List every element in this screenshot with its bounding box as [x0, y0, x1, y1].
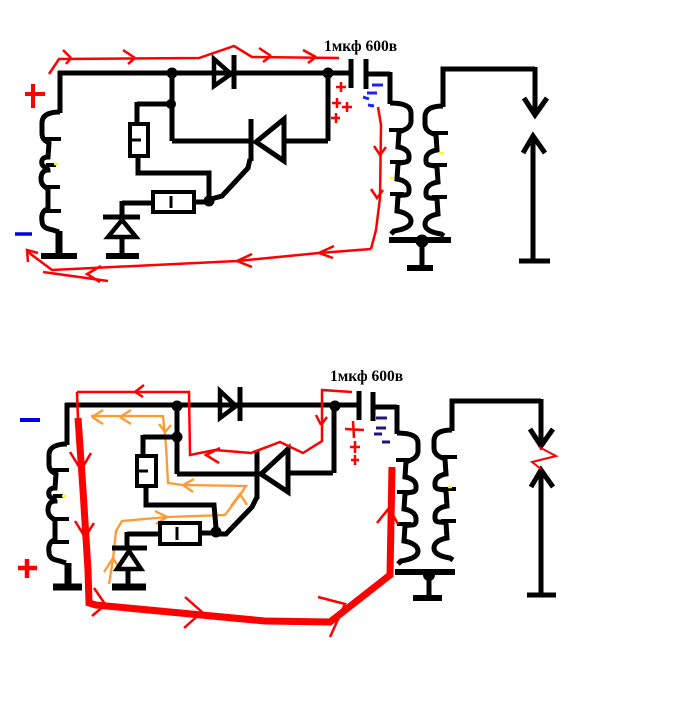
inductor L1 stub ticks B	[51, 470, 69, 542]
wire vertical x=333 B	[332, 406, 337, 473]
resistor R2 body B	[160, 523, 200, 544]
spark gap upper electrode shaft B	[539, 399, 544, 443]
resistor R1 mark B	[139, 470, 148, 473]
junction dot B T	[323, 68, 334, 79]
orange arrowhead left (mid) B	[183, 479, 194, 492]
red charge path right vertical T	[371, 107, 381, 249]
zener D3 cathode bar B	[112, 546, 147, 551]
diode D1 triangle B	[220, 391, 236, 418]
orange arrowhead up (zener) B	[104, 558, 121, 572]
red plus marks near capacitor T	[331, 82, 352, 123]
wire junction to R1 top T	[137, 102, 172, 124]
transformer primary winding T	[390, 103, 411, 234]
resistor R1 body B	[137, 456, 156, 486]
wire vertical x=172 T	[170, 73, 175, 141]
capacitor C1 right plate T	[364, 59, 369, 89]
capacitor C1 left plate B	[357, 391, 362, 420]
zener D3 triangle B	[117, 551, 141, 569]
red tail segment T	[43, 272, 108, 281]
red charge path top line T	[49, 46, 339, 74]
red arrowhead 3 T	[259, 48, 271, 62]
inductor L1 coil B	[48, 444, 67, 563]
thyristor V1 triangle T	[256, 119, 284, 161]
orange arrowhead up-right B	[231, 494, 247, 506]
diode D1 triangle	[214, 59, 231, 86]
transformer centre tap ground stem T	[420, 240, 425, 266]
thyristor V1 triangle B	[261, 449, 288, 492]
ground bar under L1	[41, 253, 77, 259]
yellow tick coil B	[62, 495, 66, 498]
wire anode to right vertical B	[288, 471, 333, 476]
red arrowhead down 2 T	[371, 189, 383, 198]
red arrowhead 4 T	[303, 50, 316, 63]
orange arrowhead left top 1 B	[120, 410, 131, 424]
wire top horizontal B	[65, 403, 358, 408]
transformer primary stub ticks B	[396, 460, 411, 524]
spark gap bottom bar T	[519, 259, 550, 264]
red arrowhead end T	[27, 250, 38, 262]
diode D1 cathode bar B	[238, 387, 243, 421]
zener D3 triangle T	[108, 220, 136, 237]
inductor L1 stub ticks	[44, 139, 61, 211]
red arrowhead down on thick line 1 B	[70, 452, 91, 470]
transformer centre tap ground stem B	[427, 574, 432, 595]
red arrowhead up on thick right B	[377, 508, 398, 524]
capacitor C1 right plate B	[371, 392, 376, 421]
wire top horizontal T	[58, 71, 351, 76]
svg-text:1мкф 600в: 1мкф 600в	[330, 368, 403, 385]
red arrowhead 2 T	[123, 50, 135, 64]
red arrowhead down on thick line 2 B	[75, 521, 94, 537]
yellow tick secondary T	[439, 152, 444, 155]
thick red discharge path left+bottom B	[78, 418, 392, 622]
junction dot E (transformer tap) T	[416, 235, 429, 248]
wire cathode horizontal y=141 T	[172, 139, 249, 144]
junction dot D B	[211, 527, 222, 538]
wire R1 bottom to gate junction B	[146, 486, 216, 528]
junction dot C B	[172, 432, 183, 443]
resistor R1 body T	[130, 124, 148, 156]
transformer bottom bar T	[389, 237, 451, 243]
ground bar under L1 B	[53, 584, 82, 591]
thyristor V1 cathode bar T	[249, 119, 254, 161]
red arrowhead right on thick bottom B	[184, 597, 202, 628]
red spark zigzag B	[532, 447, 556, 469]
transformer core gap / secondary winding T	[425, 106, 444, 236]
red charge path bottom return T	[28, 249, 371, 270]
zener D3 stem B	[126, 569, 131, 585]
junction dot A B	[172, 401, 183, 412]
junction dot D T	[204, 196, 215, 207]
spark gap lower electrode shaft B	[539, 472, 544, 595]
wire anode to right vertical T	[285, 139, 328, 144]
transformer primary winding B	[397, 433, 418, 564]
wire left vertical T	[58, 71, 63, 113]
red plus terminal sign B	[18, 559, 37, 578]
thin red arrowhead zigzag B	[206, 448, 220, 463]
spark gap upper arrowhead T	[524, 98, 547, 115]
yellow tick primary T	[390, 177, 394, 180]
inductor L1 bottom stem	[56, 231, 63, 253]
wire R1 bottom to gate junction T	[138, 156, 209, 201]
junction dot E (transformer tap) B	[423, 569, 435, 581]
transformer primary stub ticks T	[389, 130, 404, 194]
blue minus terminal sign B	[20, 418, 40, 422]
thyristor V1 cathode bar B	[255, 450, 260, 499]
navy electrolyte dashes B	[374, 418, 390, 442]
orange arrowhead down on descent B	[159, 424, 171, 432]
red arrowhead at thick bend B	[318, 597, 345, 637]
zener D3 cathode bar T	[103, 215, 140, 220]
wire secondary top to spark gap T	[443, 69, 535, 107]
blue electrolyte dashes T	[363, 85, 383, 106]
transformer secondary stub ticks T	[432, 133, 448, 197]
blue minus terminal sign T	[15, 232, 32, 236]
spark gap upper arrowhead B	[530, 429, 553, 446]
orange arrowhead right B	[155, 511, 167, 524]
ground bar under transformer T	[407, 265, 433, 271]
spark gap bottom bar B	[527, 593, 556, 598]
red plus marks near capacitor B	[345, 421, 364, 465]
thyristor V1 gate lead B	[217, 497, 257, 534]
wire secondary top to spark gap B	[452, 401, 541, 431]
spark gap upper electrode shaft T	[533, 67, 538, 112]
ground bar under zener T	[106, 253, 139, 259]
wire junction to R1 top B	[143, 435, 177, 456]
wire cap to primary B	[373, 405, 397, 434]
orange arrowhead left top 2 B	[92, 410, 103, 424]
spark gap lower arrowhead B	[531, 470, 553, 487]
wire left vertical B	[65, 403, 70, 445]
thyristor V1 gate lead T	[211, 159, 250, 199]
red tick at thick corner B	[92, 588, 105, 616]
ground bar under zener B	[112, 584, 146, 591]
wire R2 left to zener T	[122, 201, 153, 216]
wire vertical x=177 B	[175, 406, 180, 474]
svg-text:1мкф 600в: 1мкф 600в	[324, 38, 397, 55]
red arrowhead left 1 T	[319, 246, 334, 258]
wire R2 to junction T	[194, 200, 209, 205]
wire R2 left to zener B	[127, 532, 160, 548]
thin red arrowhead left end B	[135, 385, 144, 397]
capacitor C1 left plate T	[349, 59, 354, 88]
inductor L1 (left coil)	[41, 112, 60, 232]
thin red path top B	[77, 390, 352, 455]
red arrowhead left 2 T	[237, 254, 252, 267]
resistor R1 mark T	[132, 139, 141, 142]
yellow tick coil T	[54, 163, 58, 166]
orange trigger path B	[91, 416, 246, 584]
red arrowhead down 1 T	[374, 146, 386, 155]
spark gap lower arrowhead T	[523, 136, 545, 153]
junction dot C T	[166, 99, 176, 109]
spark gap lower electrode shaft T	[531, 138, 536, 261]
red arrowhead 1 T	[63, 50, 71, 64]
red plus terminal sign T	[25, 84, 45, 108]
red arrowhead tail T	[87, 266, 101, 282]
transformer secondary winding B	[434, 430, 453, 560]
thin red arrowhead down cap B	[316, 415, 327, 425]
resistor R2 mark B	[176, 527, 179, 540]
ground bar under transformer B	[413, 595, 442, 601]
yellow tick secondary B	[448, 486, 452, 489]
wire R2 to junction B	[200, 531, 214, 536]
wire vertical x=328 T	[326, 73, 331, 141]
transformer secondary stub ticks B	[441, 457, 457, 521]
transformer bottom bar B	[395, 569, 455, 575]
junction dot A T	[167, 68, 178, 79]
diode D1 cathode bar	[232, 55, 237, 89]
junction dot B2 B	[330, 401, 341, 412]
resistor R2 body T	[153, 192, 194, 212]
wire cathode horizontal y=474 B	[177, 472, 260, 477]
wire cap to primary T	[366, 72, 390, 104]
inductor L1 bottom stem B	[65, 563, 72, 585]
resistor R2 mark T	[170, 196, 173, 208]
zener D3 stem T	[120, 237, 125, 254]
